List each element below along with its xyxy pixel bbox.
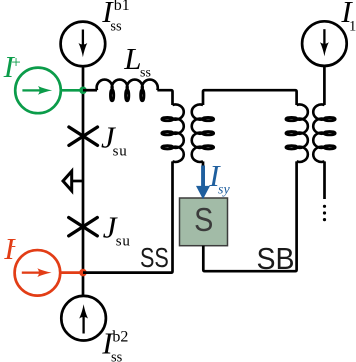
svg-text:ss: ss [110,19,122,35]
svg-text:SB: SB [257,242,295,276]
svg-text:ss: ss [111,350,123,362]
node red junction [79,269,87,277]
label I_1 [340,0,356,34]
svg-text:-: - [12,237,16,252]
svg-text:+: + [11,53,21,72]
wire SS right lower + bottom [83,161,173,272]
wire SS top right corner [157,90,172,105]
svg-text:SS: SS [140,241,169,273]
transformer T1 left coil (SS loop) [173,104,184,162]
current source I- (red) [15,250,83,296]
wire main left vertical [82,66,85,296]
triangle marker [63,171,72,191]
node ellipsis dots [323,205,326,222]
svg-text:1: 1 [349,18,356,34]
current source I+ (green) [15,68,83,114]
svg-text:L: L [123,41,141,76]
transformer T1 right coil (SB loop) [192,104,203,162]
label I_sy [208,158,230,198]
label J_su lower [103,209,131,249]
wire triangle stub [72,180,83,183]
transformer T2 right coil [313,104,324,162]
Josephson junction J_su (lower) [69,218,98,236]
node green junction [79,87,87,95]
wire S bottom + SB bottom [203,161,296,271]
inductor Lss [97,80,158,91]
wire I1 to T2 right coil [323,66,326,105]
svg-text:b2: b2 [112,328,128,345]
wire T2 right coil down [323,161,326,199]
wire SB top [203,90,297,105]
svg-text:sy: sy [218,183,230,198]
current arrow I_sy (blue) [196,166,210,200]
current source Ib1ss [61,22,106,67]
wire T1 right coil bottom stub [202,161,205,168]
label I+ [3,49,21,84]
svg-text:su: su [113,143,128,159]
label J_su upper [101,120,128,160]
svg-text:S: S [194,202,213,239]
label I_ss^b2 [101,325,128,362]
svg-text:ss: ss [140,65,151,80]
svg-text:b1: b1 [114,0,130,14]
label I_ss^b1 [101,0,130,35]
wire SS top left [83,89,97,92]
component S (SQUID box) [180,198,228,246]
Josephson junction J_su (upper) [69,127,98,145]
label I- [3,231,16,266]
current source Ib2ss [61,296,106,341]
transformer T2 left coil (SB loop) [297,104,308,162]
label L_ss [123,41,151,80]
svg-text:su: su [116,233,131,249]
current source I1 [302,21,347,66]
